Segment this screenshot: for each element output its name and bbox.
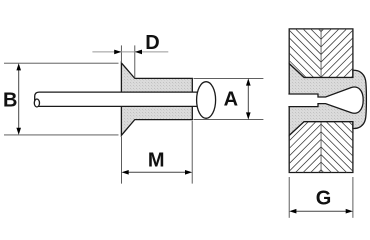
svg-text:M: M <box>148 150 165 172</box>
dimension A top extension line <box>194 77 264 79</box>
dimension D left extension line <box>120 45 122 63</box>
dimension M right extension line <box>191 121 193 184</box>
mandrel bore (broken-off funnel) <box>288 87 363 113</box>
svg-text:G: G <box>316 187 332 209</box>
dimension B top extension line <box>4 62 119 64</box>
dimension A bottom extension line <box>194 119 264 121</box>
mandrel stem <box>34 92 206 107</box>
dimension M line <box>122 170 193 175</box>
dimension G line <box>289 209 353 214</box>
top plate (hatched section) <box>289 0 353 108</box>
dimension B bottom extension line <box>4 134 119 136</box>
dimension M left extension line <box>121 137 123 184</box>
dimension G right extension line <box>352 177 354 218</box>
dimension A line <box>246 78 251 119</box>
dimension B line <box>16 63 21 135</box>
mandrel head <box>197 82 216 119</box>
dimension D line <box>92 50 168 55</box>
rivet body (countersunk head + sleeve) <box>121 63 192 135</box>
svg-text:B: B <box>3 89 17 111</box>
bottom plate (hatched section) <box>289 94 353 202</box>
svg-text:A: A <box>224 89 238 111</box>
dimension D right extension line <box>134 45 136 78</box>
installed rivet (set, gray) <box>289 64 366 136</box>
svg-text:D: D <box>145 32 159 54</box>
dimension G left extension line <box>288 177 290 218</box>
